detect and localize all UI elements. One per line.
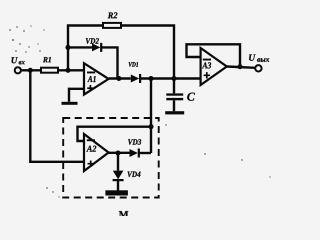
wire feedback up and R2 loop [68, 26, 174, 79]
node VD2 tap [65, 45, 70, 50]
wire node down to lower stage [150, 79, 152, 154]
wire A1 ground input [69, 89, 84, 102]
wire VD4 to ground [117, 181, 119, 191]
wire R1 to A1 input [58, 69, 84, 71]
wire A1 output [109, 77, 131, 79]
wire VD1 to A3 [141, 77, 201, 79]
wire down to A2 input [30, 70, 84, 162]
label below box [119, 211, 128, 218]
resistor R1 [41, 68, 58, 73]
wire A3 output [227, 67, 255, 68]
node A3 output junction [237, 64, 242, 69]
label VD1 [129, 62, 138, 67]
label VD3 [128, 139, 141, 145]
label R1 [43, 57, 51, 62]
node junction capacitor [171, 76, 176, 81]
node A2 output junction [115, 150, 120, 155]
op-amp A1 [84, 63, 109, 94]
diode VD2 [92, 43, 102, 52]
op-amp A2 [84, 134, 109, 171]
label VD2 [86, 38, 99, 44]
node input junction [28, 68, 33, 73]
label VD4 [128, 172, 141, 178]
capacitor C [166, 79, 183, 112]
node feedback tap [65, 68, 70, 73]
wire VD3 up to node [140, 152, 152, 154]
label Uвх [12, 57, 25, 64]
ground capacitor [165, 111, 184, 114]
wire A2 output [109, 152, 130, 154]
diode VD4 [113, 171, 124, 182]
dashed box [63, 118, 159, 198]
input terminal Uвх [15, 67, 21, 73]
wire A3 feedback loop [187, 44, 241, 66]
scan speckles [9, 25, 270, 197]
diode VD1 [131, 74, 141, 83]
node A1 output junction [116, 76, 121, 81]
output terminal Uвых [255, 65, 261, 71]
label R2 [108, 12, 118, 18]
ground VD4 [105, 190, 128, 195]
label Uвых [249, 54, 269, 61]
ground A1 [62, 102, 78, 105]
resistor R2 [103, 23, 121, 28]
diode VD3 [130, 149, 140, 158]
wire input to R1 [21, 69, 41, 71]
wire VD2 branch [68, 47, 118, 78]
op-amp A3 [201, 48, 227, 85]
wire A2 feedback loop [78, 127, 152, 141]
node junction to lower stage [148, 76, 153, 81]
node A2 loop junction [148, 124, 153, 129]
label C [187, 93, 195, 101]
wire A2 output down to VD4 [117, 153, 119, 171]
